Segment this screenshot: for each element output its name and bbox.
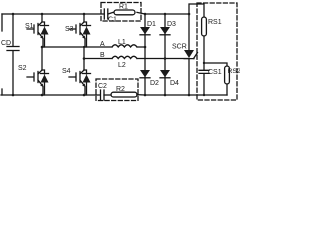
rectifier leg D3 D4 [164, 14, 166, 95]
capacitor C1 [104, 9, 117, 24]
svg-text:CS1: CS1 [208, 69, 222, 76]
rectifier leg D1 D2 [144, 14, 146, 95]
svg-text:L2: L2 [118, 62, 126, 69]
junction dots [12, 13, 206, 97]
top rail [2, 12, 189, 14]
svg-text:D4: D4 [170, 80, 179, 87]
svg-text:S2: S2 [18, 65, 27, 72]
snubber box R1 C1 (dashed) [101, 3, 141, 22]
left leg mid wire [41, 47, 43, 70]
svg-text:D3: D3 [167, 21, 176, 28]
svg-text:D1: D1 [147, 21, 156, 28]
svg-text:SCR: SCR [172, 44, 187, 51]
svg-text:D2: D2 [150, 80, 159, 87]
resistor R1 [114, 4, 135, 15]
transistor S3 [65, 14, 85, 47]
diode D4 [160, 70, 179, 87]
thyristor SCR [172, 14, 198, 95]
svg-text:C2: C2 [98, 83, 107, 90]
snubber box C2 R2 (dashed) [96, 79, 138, 101]
resistor RS2 [225, 66, 241, 95]
snubber box RS1 CS1 RS2 (dashed) [197, 3, 237, 100]
bottom rail [1, 94, 227, 96]
diode D2 [140, 70, 159, 87]
wire junction to RS2 [204, 63, 227, 66]
svg-text:C1: C1 [108, 17, 117, 24]
capacitor CD [1, 14, 19, 95]
wire B [84, 58, 189, 60]
inductor L2 [112, 56, 137, 69]
inductor L1 [112, 39, 137, 47]
svg-text:RS1: RS1 [208, 19, 222, 26]
capacitor C2 [98, 83, 107, 100]
transistor S1 [25, 14, 43, 47]
diode of S2 [41, 70, 49, 95]
svg-text:S4: S4 [62, 68, 71, 75]
diode of S3 [83, 22, 91, 47]
diode D3 [160, 21, 176, 35]
transistor S2 [18, 65, 43, 95]
diode of S1 [41, 22, 49, 47]
transistor S4 [62, 68, 85, 95]
svg-text:CD: CD [1, 40, 11, 47]
resistor R2 [111, 86, 137, 97]
diode of S4 [83, 70, 91, 95]
wire A [42, 46, 145, 48]
capacitor CS1 [199, 63, 222, 95]
wire to snubber network [189, 4, 204, 17]
resistor RS1 [202, 17, 222, 63]
diode D1 [140, 21, 156, 35]
right leg mid wire [83, 47, 85, 70]
left DC input stub [1, 14, 3, 95]
